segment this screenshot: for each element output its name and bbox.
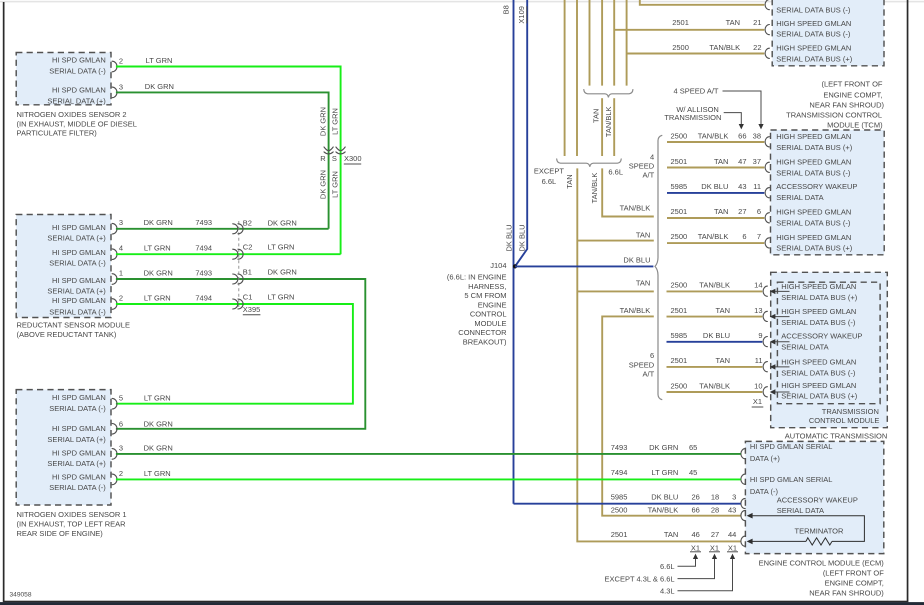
svg-text:DK BLU: DK BLU (623, 255, 650, 264)
wire LT GRN 7494 reductant pin4 to X395 C2 (116, 244, 341, 255)
svg-text:X300: X300 (344, 154, 362, 163)
reductant row pin4 text (49, 248, 106, 267)
svg-text:SERIAL DATA: SERIAL DATA (781, 343, 828, 352)
svg-text:HI SPD GMLAN SERIAL: HI SPD GMLAN SERIAL (750, 442, 833, 451)
svg-text:X1: X1 (691, 543, 700, 552)
svg-text:TRANSMISSION: TRANSMISSION (822, 407, 879, 416)
svg-text:6.6L: 6.6L (660, 562, 675, 571)
TCM row 21 labels (672, 18, 761, 27)
svg-text:HI SPD GMLAN: HI SPD GMLAN (52, 448, 106, 457)
reductant pin 4 terminal (112, 244, 123, 260)
svg-text:5985: 5985 (611, 493, 628, 502)
connector X395 pin C2 (233, 243, 295, 260)
svg-text:SERIAL DATA (-): SERIAL DATA (-) (49, 404, 106, 413)
TCM location caption (786, 80, 884, 130)
wire DK GRN 7493 reductant pin3 to X395 B2 (116, 218, 329, 229)
ECM row LT GRN labels 7494 45 (611, 468, 833, 496)
svg-text:2500: 2500 (671, 131, 688, 140)
svg-text:4: 4 (650, 152, 654, 161)
svg-text:MODULE: MODULE (474, 319, 506, 328)
svg-text:11: 11 (753, 182, 761, 191)
NOx2 pin 3 terminal (112, 82, 123, 97)
svg-text:3: 3 (119, 444, 123, 453)
svg-text:HIGH SPEED GMLAN: HIGH SPEED GMLAN (776, 44, 851, 53)
svg-text:LT GRN: LT GRN (146, 56, 173, 65)
svg-text:SERIAL DATA BUS (-): SERIAL DATA BUS (-) (776, 5, 851, 14)
label 4 SPEED A/T (629, 152, 655, 179)
wire DK GRN 7493 reductant pin1 to X395 B1 (116, 268, 365, 429)
svg-text:10: 10 (754, 381, 762, 390)
svg-text:SERIAL DATA BUS (-): SERIAL DATA BUS (-) (781, 369, 856, 378)
svg-text:26: 26 (691, 493, 699, 502)
svg-text:LT GRN: LT GRN (144, 244, 171, 253)
svg-text:2501: 2501 (671, 207, 688, 216)
svg-text:HIGH SPEED GMLAN: HIGH SPEED GMLAN (781, 381, 856, 390)
6spd row 5 wire TAN/BLK 2500 pin 10 (667, 381, 858, 401)
svg-text:DK GRN: DK GRN (144, 444, 173, 453)
svg-text:LT GRN: LT GRN (144, 394, 171, 403)
6spd row 2 wire TAN 2501 pin 13 (667, 306, 857, 327)
svg-text:LT GRN: LT GRN (331, 108, 340, 135)
svg-text:TAN/BLK: TAN/BLK (698, 131, 729, 140)
reductant module caption (17, 321, 131, 339)
NOx1 row pin5 text (49, 393, 106, 413)
svg-text:SERIAL DATA BUS (+): SERIAL DATA BUS (+) (776, 143, 852, 152)
svg-text:SERIAL DATA BUS (+): SERIAL DATA BUS (+) (776, 54, 852, 63)
svg-text:7493: 7493 (195, 268, 212, 277)
TCM row 22 labels (672, 43, 761, 52)
callout EXCEPT 4.3L & 6.6L (605, 554, 718, 584)
module box TCM 4-speed (771, 130, 885, 255)
wire TAN below 6.6L brace to ECM 46 (577, 168, 740, 541)
label EXCEPT 6.6L (534, 167, 564, 187)
svg-text:7493: 7493 (195, 218, 212, 227)
svg-text:66: 66 (738, 131, 746, 140)
svg-text:DK GRN: DK GRN (144, 218, 173, 227)
svg-text:TAN: TAN (636, 279, 650, 288)
svg-text:DK GRN: DK GRN (268, 267, 297, 276)
svg-text:6: 6 (742, 232, 746, 241)
wire TAN vertical 3 (589, 0, 591, 86)
connector labels X1 X1 X1 (690, 543, 738, 552)
TCM row 22 hook (765, 48, 769, 58)
svg-text:HIGH SPEED GMLAN: HIGH SPEED GMLAN (776, 158, 851, 167)
svg-text:28: 28 (711, 505, 719, 514)
NOx1 module caption (17, 510, 127, 538)
svg-text:TAN/BLK: TAN/BLK (620, 204, 651, 213)
svg-text:DATA (-): DATA (-) (750, 487, 779, 496)
svg-text:TAN: TAN (592, 109, 601, 123)
svg-text:HIGH SPEED GMLAN: HIGH SPEED GMLAN (776, 233, 851, 242)
svg-text:TAN/BLK: TAN/BLK (604, 106, 613, 137)
splice J104 (490, 261, 517, 270)
svg-text:2501: 2501 (671, 356, 688, 365)
connector X395 pin B1 (233, 267, 297, 284)
reductant pin 3 terminal (112, 218, 123, 234)
svg-text:TAN/BLK: TAN/BLK (590, 173, 599, 204)
TCM row 21 hook (765, 25, 769, 35)
svg-text:46: 46 (691, 530, 699, 539)
wire TAN 2501 to TCM 21 (614, 29, 764, 31)
wire TAN/BLK 2500 to TCM 22 (627, 53, 765, 55)
svg-text:ENGINE CONTROL MODULE (ECM): ENGINE CONTROL MODULE (ECM) (759, 559, 885, 568)
svg-text:A/T: A/T (643, 370, 655, 379)
svg-text:ACCESSORY WAKEUP: ACCESSORY WAKEUP (777, 496, 858, 505)
6spd row 1 wire TAN/BLK 2500 pin 14 (667, 281, 858, 302)
NOx1 pin 2 terminal (112, 469, 123, 485)
svg-text:DK GRN: DK GRN (144, 420, 173, 429)
svg-text:SERIAL DATA BUS (+): SERIAL DATA BUS (+) (781, 392, 857, 401)
svg-text:HIGH SPEED GMLAN: HIGH SPEED GMLAN (781, 358, 856, 367)
module box automatic transmission outer (771, 272, 888, 427)
svg-text:4: 4 (119, 244, 123, 253)
brace EXCEPT 6.6L group (557, 159, 622, 167)
svg-text:NEAR FAN SHROUD): NEAR FAN SHROUD) (809, 589, 884, 598)
svg-text:4 SPEED A/T: 4 SPEED A/T (673, 87, 718, 96)
svg-text:EXCEPT 4.3L & 6.6L: EXCEPT 4.3L & 6.6L (605, 574, 675, 583)
module box ECM (745, 441, 883, 553)
svg-text:9: 9 (758, 331, 762, 340)
svg-text:SERIAL DATA BUS (-): SERIAL DATA BUS (-) (776, 168, 851, 177)
svg-text:B8: B8 (501, 5, 510, 14)
svg-text:45: 45 (689, 468, 697, 477)
svg-text:2500: 2500 (672, 43, 689, 52)
module box TCM 6-speed inner (777, 282, 880, 404)
svg-text:SERIAL DATA (+): SERIAL DATA (+) (47, 96, 106, 105)
TCM row 21 text (776, 19, 851, 39)
svg-text:HI SPD GMLAN SERIAL: HI SPD GMLAN SERIAL (750, 475, 833, 484)
callout 4.3L (660, 554, 735, 596)
callout 4 SPEED A/T (673, 87, 763, 130)
wire DK GRN NOx1 pin3 to ECM 65 (run) (116, 453, 741, 455)
svg-text:(IN EXHAUST, MIDDLE OF DIESEL: (IN EXHAUST, MIDDLE OF DIESEL (17, 119, 137, 128)
svg-text:2501: 2501 (672, 18, 689, 27)
svg-text:TAN/BLK: TAN/BLK (698, 232, 729, 241)
wire TAN row into top box (cut) (640, 0, 765, 5)
wire TAN/BLK from 6spd group to ECM 66 (602, 306, 741, 516)
svg-text:B1: B1 (243, 267, 252, 276)
svg-text:(ABOVE REDUCTANT TANK): (ABOVE REDUCTANT TANK) (17, 330, 117, 339)
wire TAN vertical 2 (576, 0, 578, 156)
svg-text:SERIAL DATA BUS (+): SERIAL DATA BUS (+) (781, 293, 857, 302)
svg-text:2500: 2500 (671, 281, 688, 290)
svg-text:MODULE (TCM): MODULE (TCM) (827, 120, 883, 129)
svg-text:LT GRN: LT GRN (331, 171, 340, 198)
wire TAN/BLK below upper brace (613, 98, 615, 156)
reductant row pin1 text (47, 276, 106, 295)
connector X395 pin C1 (233, 293, 295, 309)
svg-text:1: 1 (119, 268, 123, 277)
ECM caption (759, 559, 885, 598)
connector X300 pin R (320, 147, 333, 163)
svg-text:2501: 2501 (671, 157, 688, 166)
svg-text:2: 2 (119, 57, 123, 66)
svg-text:TRANSMISSION: TRANSMISSION (664, 113, 721, 122)
wire TAN to 6spd group (577, 279, 654, 292)
svg-text:4.3L: 4.3L (660, 587, 675, 596)
connector label X395 (243, 305, 261, 315)
svg-text:5 CM FROM: 5 CM FROM (464, 291, 506, 300)
svg-text:HI SPD GMLAN: HI SPD GMLAN (52, 55, 106, 64)
svg-text:2: 2 (119, 469, 123, 478)
svg-text:TAN/BLK: TAN/BLK (620, 306, 651, 315)
svg-text:TAN: TAN (664, 530, 678, 539)
4spd row 3 wire DK BLU 5985 pins 43 11 (667, 182, 857, 202)
wire DK BLU vertical X109 branch (516, 0, 527, 265)
svg-text:ENGINE COMPT,: ENGINE COMPT, (823, 90, 882, 99)
svg-text:7494: 7494 (195, 244, 212, 253)
svg-text:X1: X1 (753, 397, 762, 406)
4spd row 2 wire TAN 2501 pins 47 37 (667, 157, 851, 177)
svg-text:2501: 2501 (611, 530, 628, 539)
ECM row TAN labels 2501 46 27 44 (611, 530, 746, 546)
svg-text:TAN/BLK: TAN/BLK (699, 381, 730, 390)
svg-text:B2: B2 (243, 218, 252, 227)
svg-text:65: 65 (689, 443, 697, 452)
svg-text:DK GRN: DK GRN (649, 443, 678, 452)
svg-text:DK BLU: DK BLU (505, 224, 514, 251)
wire TAN below upper brace (601, 98, 603, 156)
svg-text:66: 66 (691, 505, 699, 514)
TCM row 22 text (776, 44, 852, 64)
reductant pin 2 terminal (112, 293, 123, 309)
svg-text:TAN: TAN (716, 306, 730, 315)
svg-text:SERIAL DATA BUS (+): SERIAL DATA BUS (+) (776, 244, 852, 253)
svg-text:DK BLU: DK BLU (701, 182, 728, 191)
svg-text:SERIAL DATA (-): SERIAL DATA (-) (49, 483, 106, 492)
brace upper harness group (584, 90, 633, 98)
page top light rule (0, 1, 924, 3)
page border right (907, 0, 909, 601)
module box NOx sensor 2 (16, 53, 111, 105)
4spd row 1 wire TAN/BLK 2500 pins 66 38 (667, 131, 853, 151)
wire TAN vertical 5 (613, 0, 615, 86)
svg-text:LT GRN: LT GRN (268, 243, 295, 252)
svg-text:349058: 349058 (10, 592, 32, 599)
4spd row 4 wire TAN 2501 pins 27 6 (667, 207, 851, 227)
svg-text:2: 2 (119, 293, 123, 302)
svg-text:43: 43 (738, 182, 746, 191)
svg-text:21: 21 (753, 18, 761, 27)
svg-text:7494: 7494 (611, 468, 628, 477)
svg-text:(6.6L: IN ENGINE: (6.6L: IN ENGINE (447, 273, 507, 282)
svg-text:PARTICULATE FILTER): PARTICULATE FILTER) (17, 129, 98, 138)
svg-text:C1: C1 (243, 293, 253, 302)
wire TAN/BLK below 6.6L brace to 4spd group (602, 168, 654, 216)
svg-text:3: 3 (119, 82, 123, 91)
wire LT GRN 7494 NOx1 pin2 to ECM 45 (144, 469, 171, 478)
svg-text:AUTOMATIC TRANSMISSION: AUTOMATIC TRANSMISSION (785, 431, 888, 440)
page border left (3, 2, 5, 601)
svg-text:HI SPD GMLAN: HI SPD GMLAN (52, 393, 106, 402)
wire TAN vertical 4 (601, 0, 603, 86)
svg-text:TAN: TAN (726, 18, 740, 27)
wire DK BLU J104 to options brace (run) (515, 265, 653, 267)
NOx2 row pin3 text (47, 85, 106, 105)
svg-text:5985: 5985 (671, 182, 688, 191)
svg-text:EXCEPT: EXCEPT (534, 167, 564, 176)
svg-text:37: 37 (753, 157, 761, 166)
svg-text:5985: 5985 (671, 331, 688, 340)
svg-text:DK GRN: DK GRN (145, 82, 174, 91)
svg-text:5: 5 (119, 394, 123, 403)
svg-text:6.6L: 6.6L (542, 177, 557, 186)
svg-text:2501: 2501 (671, 306, 688, 315)
wire TAN to 4spd group (577, 231, 654, 241)
svg-text:38: 38 (753, 131, 761, 140)
svg-text:43: 43 (728, 505, 736, 514)
svg-text:NITROGEN OXIDES SENSOR 1: NITROGEN OXIDES SENSOR 1 (17, 510, 127, 519)
svg-text:ACCESSORY WAKEUP: ACCESSORY WAKEUP (776, 182, 857, 191)
svg-text:X395: X395 (243, 305, 261, 314)
svg-text:LT GRN: LT GRN (144, 293, 171, 302)
svg-text:ACCESSORY WAKEUP: ACCESSORY WAKEUP (781, 332, 862, 341)
svg-text:HIGH SPEED GMLAN: HIGH SPEED GMLAN (781, 307, 856, 316)
svg-text:3: 3 (119, 218, 123, 227)
wire TAN vertical 6 (626, 0, 628, 86)
callout 6.6L (660, 554, 698, 571)
svg-text:R: R (320, 154, 326, 163)
svg-text:S: S (332, 154, 337, 163)
svg-text:TAN: TAN (714, 207, 728, 216)
svg-text:TERMINATOR: TERMINATOR (795, 526, 844, 535)
svg-text:SERIAL DATA (+): SERIAL DATA (+) (47, 459, 106, 468)
svg-text:CONNECTOR: CONNECTOR (458, 328, 507, 337)
svg-text:TRANSMISSION CONTROL: TRANSMISSION CONTROL (786, 110, 882, 119)
NOx2 pin 2 terminal (112, 57, 123, 72)
svg-text:X1: X1 (728, 543, 737, 552)
label 6 SPEED A/T (629, 351, 655, 379)
NOx1 row pin6 text (47, 424, 106, 444)
svg-text:DK BLU: DK BLU (703, 331, 730, 340)
svg-text:6: 6 (119, 420, 123, 429)
connector X395 pin B2 (233, 218, 297, 234)
module box NOx sensor 1 (16, 390, 111, 505)
wire DK BLU J104 to options brace (623, 255, 650, 264)
svg-text:SERIAL DATA (-): SERIAL DATA (-) (49, 66, 106, 75)
svg-text:REDUCTANT SENSOR MODULE: REDUCTANT SENSOR MODULE (17, 321, 131, 330)
svg-text:SERIAL DATA BUS (-): SERIAL DATA BUS (-) (776, 30, 851, 39)
svg-text:CONTROL: CONTROL (470, 310, 507, 319)
svg-text:HIGH SPEED GMLAN: HIGH SPEED GMLAN (781, 282, 856, 291)
svg-text:13: 13 (754, 306, 762, 315)
svg-text:22: 22 (753, 43, 761, 52)
svg-text:TAN/BLK: TAN/BLK (709, 43, 740, 52)
svg-text:(LEFT FRONT OF: (LEFT FRONT OF (823, 569, 884, 578)
svg-text:LT GRN: LT GRN (651, 468, 678, 477)
svg-text:6.6L: 6.6L (608, 167, 623, 176)
svg-text:TAN/BLK: TAN/BLK (648, 505, 679, 514)
wire LT GRN from NOx2 pin 2 down to X300 S and C2 (116, 56, 341, 254)
6spd row 3 wire DK BLU 5985 pin 9 (667, 331, 863, 351)
svg-text:SERIAL DATA: SERIAL DATA (776, 193, 823, 202)
wire LT GRN 7494 reductant pin2 to X395 C1 (116, 293, 353, 403)
callout W/ ALLISON TRANSMISSION (664, 105, 744, 130)
svg-text:47: 47 (738, 157, 746, 166)
svg-text:7493: 7493 (611, 443, 628, 452)
svg-text:HIGH SPEED GMLAN: HIGH SPEED GMLAN (776, 19, 851, 28)
svg-text:SERIAL DATA BUS (-): SERIAL DATA BUS (-) (776, 218, 851, 227)
wire DK GRN 7493 NOx1 pin3 to ECM 65 (144, 444, 173, 453)
svg-text:DK GRN: DK GRN (319, 170, 328, 199)
svg-text:X109: X109 (517, 6, 526, 24)
connector label X1 6spd (752, 397, 764, 407)
svg-text:11: 11 (755, 356, 763, 365)
NOx1 row pin2 text (49, 472, 106, 492)
connector X300 pin S (332, 147, 345, 163)
wire DK BLU vertical B8 to ECM (513, 0, 515, 504)
wire LT GRN NOx1 pin2 to ECM 45 (run) (116, 478, 741, 480)
J104 caption (447, 273, 507, 347)
terminator network (747, 513, 865, 545)
svg-text:HARNESS,: HARNESS, (468, 282, 506, 291)
svg-text:SERIAL DATA (-): SERIAL DATA (-) (49, 259, 106, 268)
bottom window bar (0, 602, 924, 605)
NOx2 module caption (17, 110, 137, 137)
reductant row pin3 text (47, 223, 106, 242)
svg-text:X1: X1 (710, 543, 719, 552)
svg-text:TAN: TAN (565, 174, 574, 188)
svg-text:(IN EXHAUST, TOP LEFT REAR: (IN EXHAUST, TOP LEFT REAR (17, 519, 127, 528)
label X109 (517, 6, 527, 24)
svg-text:HI SPD GMLAN: HI SPD GMLAN (52, 424, 106, 433)
svg-text:2500: 2500 (611, 505, 628, 514)
svg-text:44: 44 (728, 530, 736, 539)
svg-text:BREAKOUT): BREAKOUT) (463, 338, 507, 347)
svg-text:(LEFT FRONT OF: (LEFT FRONT OF (822, 80, 883, 89)
svg-text:HI SPD GMLAN: HI SPD GMLAN (52, 276, 106, 285)
6spd row 4 wire TAN 2501 pin 11 (667, 356, 857, 377)
wire DK BLU to ECM 26 18 3 (run) (514, 503, 741, 505)
TCM 6spd caption (809, 407, 880, 425)
svg-text:DK BLU: DK BLU (651, 493, 678, 502)
svg-text:SERIAL DATA (+): SERIAL DATA (+) (47, 286, 106, 295)
svg-text:SERIAL DATA (-): SERIAL DATA (-) (49, 308, 106, 317)
svg-text:18: 18 (711, 493, 719, 502)
svg-text:SPEED: SPEED (629, 162, 655, 171)
ECM row TAN/BLK labels 2500 66 28 43 (611, 505, 746, 520)
svg-text:HIGH SPEED GMLAN: HIGH SPEED GMLAN (776, 208, 851, 217)
ECM row DK BLU labels 5985 26 18 3 (611, 493, 858, 515)
svg-text:NITROGEN OXIDES SENSOR 2: NITROGEN OXIDES SENSOR 2 (17, 110, 127, 119)
svg-text:3: 3 (732, 493, 736, 502)
svg-text:TAN: TAN (636, 231, 650, 240)
svg-text:J104: J104 (490, 261, 506, 270)
svg-text:SERIAL DATA (+): SERIAL DATA (+) (47, 435, 106, 444)
connector label X300 (344, 154, 362, 164)
svg-text:HI SPD GMLAN: HI SPD GMLAN (52, 85, 106, 94)
svg-text:TAN: TAN (716, 356, 730, 365)
module box TCM top (772, 0, 884, 66)
svg-text:SPEED: SPEED (629, 360, 655, 369)
svg-text:SERIAL DATA: SERIAL DATA (777, 506, 824, 515)
svg-text:SERIAL DATA (+): SERIAL DATA (+) (47, 233, 106, 242)
reductant row pin2 text (49, 296, 106, 316)
svg-text:HI SPD GMLAN: HI SPD GMLAN (52, 472, 106, 481)
svg-text:6: 6 (650, 351, 654, 360)
svg-text:ENGINE: ENGINE (478, 301, 507, 310)
svg-text:LT GRN: LT GRN (144, 469, 171, 478)
svg-text:27: 27 (738, 207, 746, 216)
svg-text:ENGINE COMPT,: ENGINE COMPT, (825, 578, 884, 587)
svg-text:2500: 2500 (671, 232, 688, 241)
svg-text:DK GRN: DK GRN (268, 218, 297, 227)
svg-text:14: 14 (754, 281, 762, 290)
reductant pin 1 terminal (112, 268, 123, 284)
module box reductant sensor module (16, 215, 111, 318)
svg-text:7: 7 (757, 232, 761, 241)
svg-text:2500: 2500 (671, 381, 688, 390)
